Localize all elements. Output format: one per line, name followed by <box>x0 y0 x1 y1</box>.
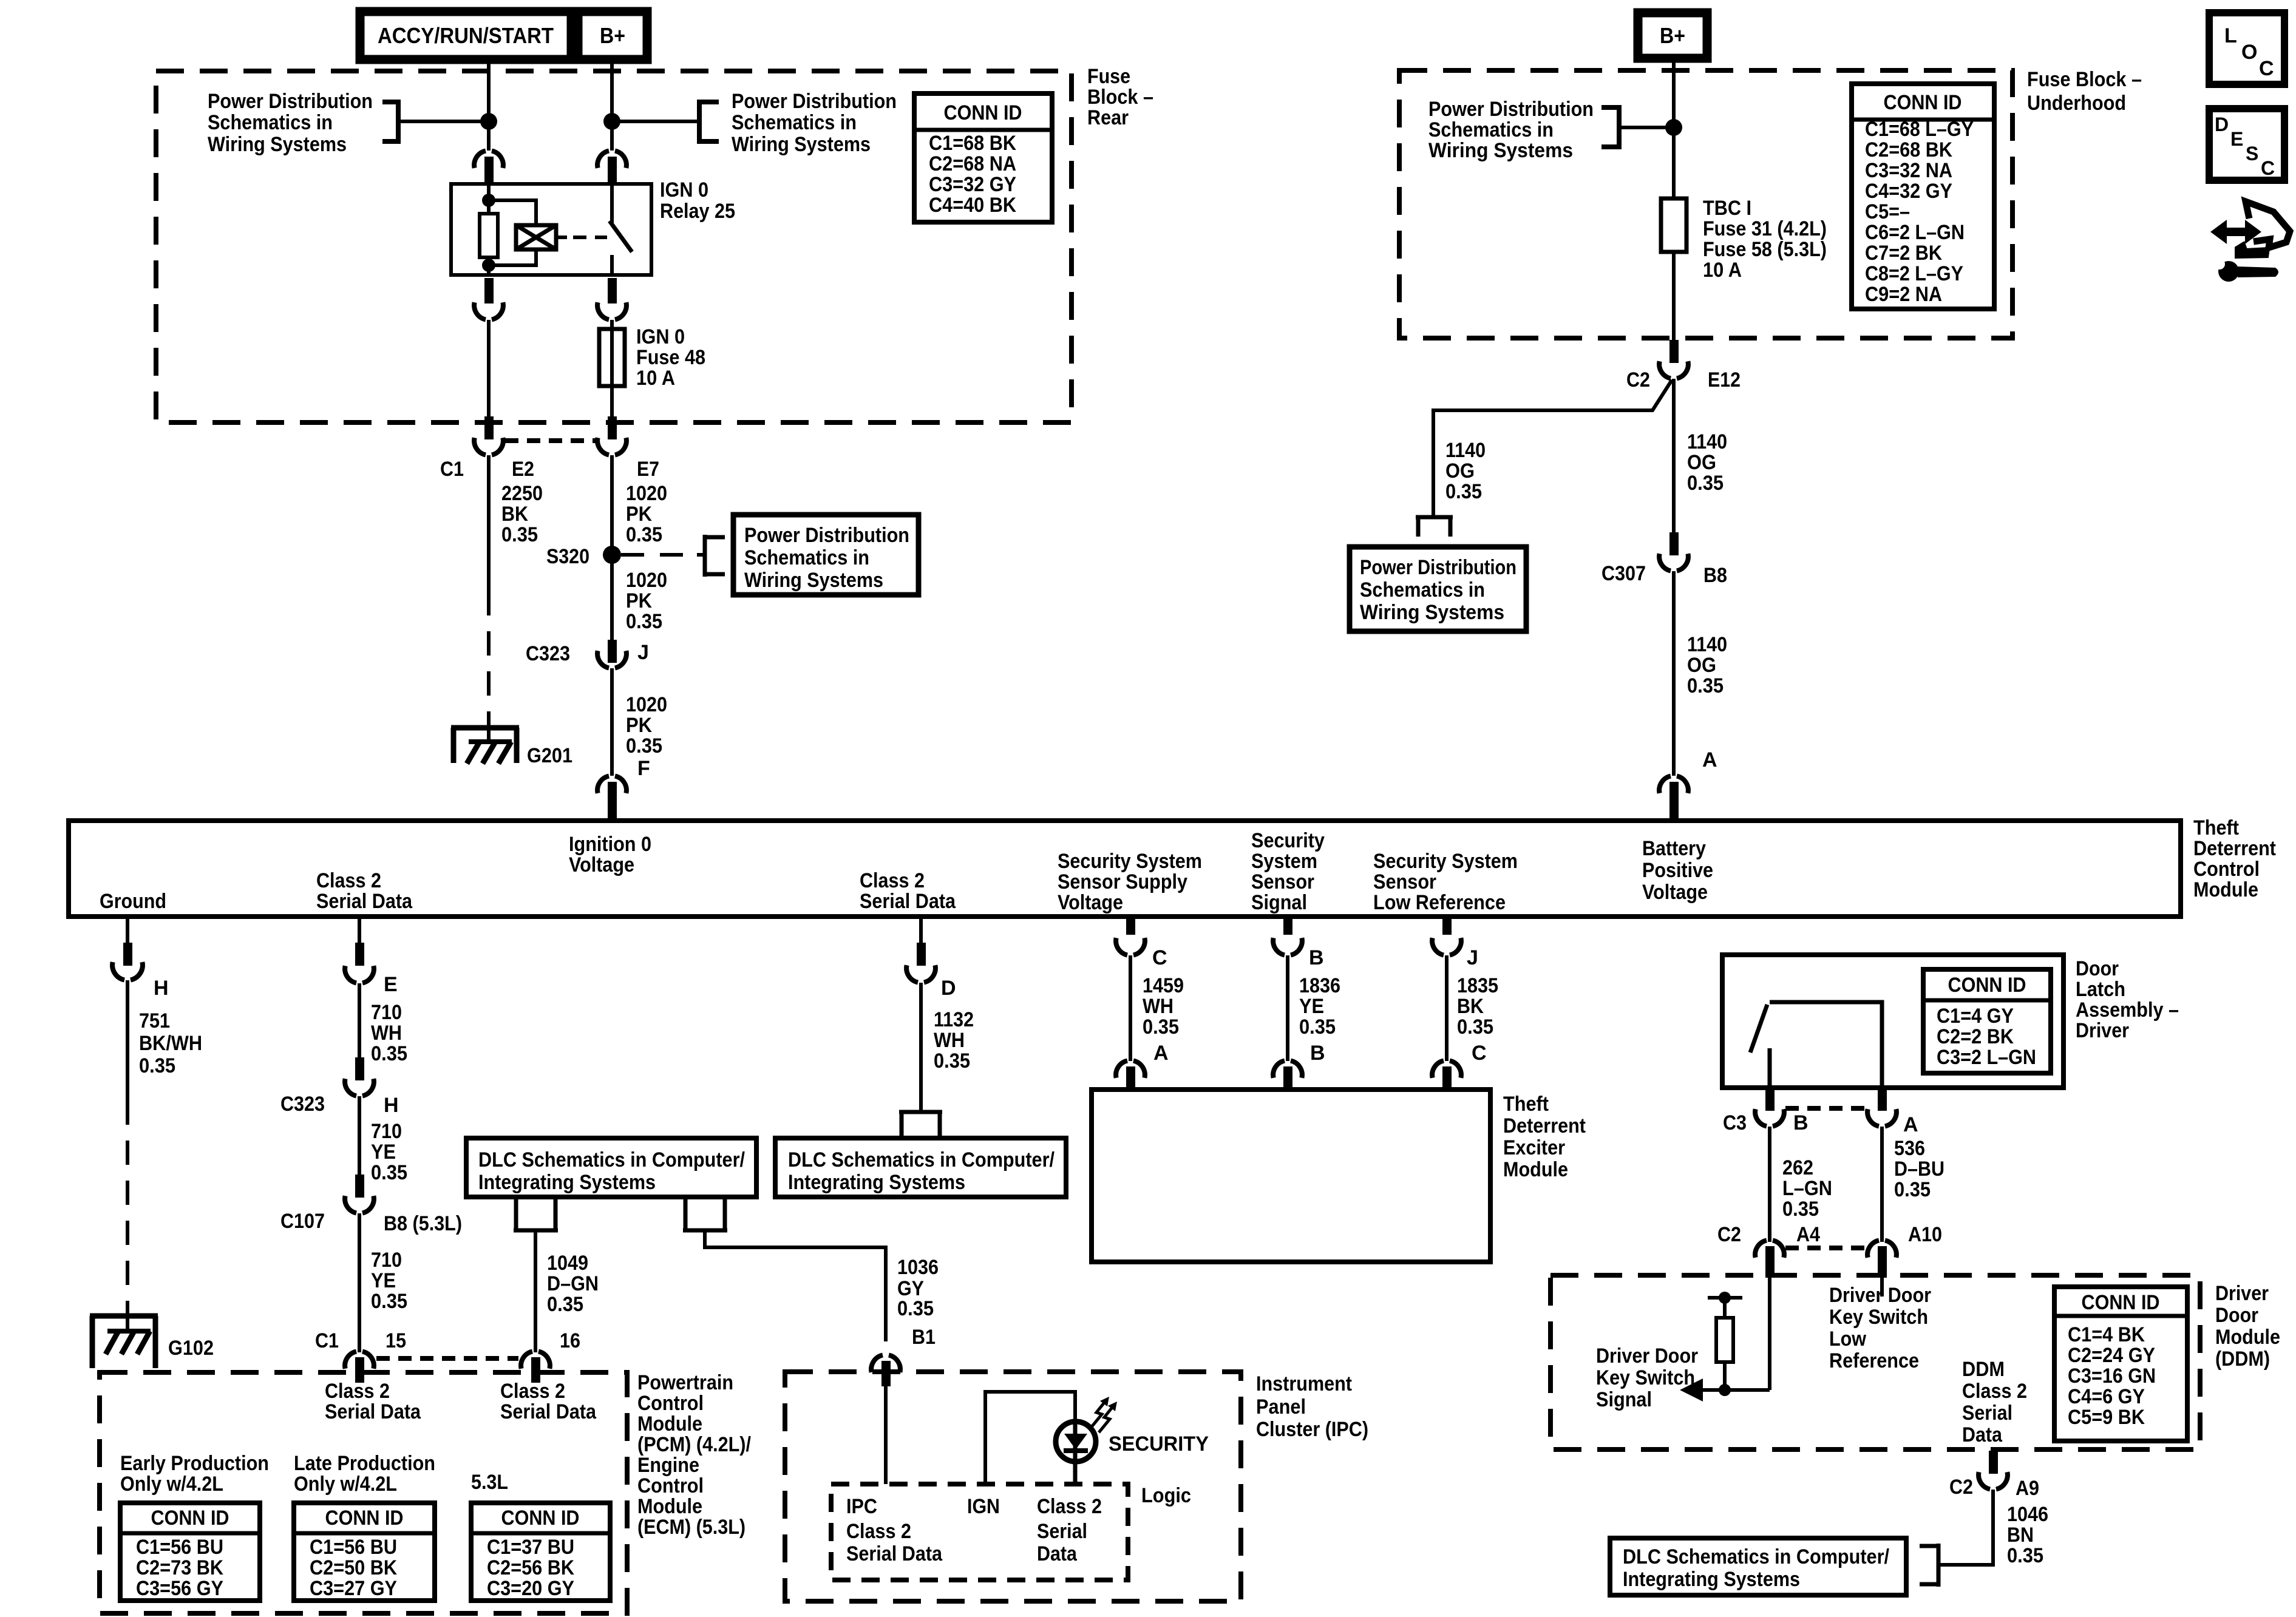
relay solenoid loop <box>489 200 536 265</box>
svg-text:Logic: Logic <box>1141 1484 1191 1507</box>
svg-text:Security System: Security System <box>1058 850 1202 873</box>
svg-text:OG: OG <box>1687 654 1716 677</box>
svg-text:1036: 1036 <box>897 1256 939 1279</box>
connector C1 15 dome into PCM <box>345 1352 374 1369</box>
svg-text:J: J <box>637 641 649 664</box>
svg-text:0.35: 0.35 <box>934 1049 970 1073</box>
svg-text:C2=68 BK: C2=68 BK <box>1865 138 1952 161</box>
latch switch <box>1770 1002 1882 1088</box>
svg-text:Panel: Panel <box>1256 1395 1306 1419</box>
bracket to B+ wire <box>699 100 719 144</box>
connector C2 E12 (pin and cup) <box>1669 340 1679 363</box>
wire B down <box>1768 1127 1771 1242</box>
svg-text:CONN ID: CONN ID <box>944 101 1022 124</box>
svg-text:Integrating Systems: Integrating Systems <box>1623 1568 1800 1591</box>
svg-text:C5=–: C5=– <box>1865 200 1910 223</box>
svg-text:A: A <box>1702 748 1717 771</box>
ground G102 <box>90 1316 158 1368</box>
fuse IGN 0 Fuse 48 10 A <box>599 329 625 386</box>
svg-text:C323: C323 <box>526 642 570 665</box>
svg-text:B+: B+ <box>1660 23 1685 48</box>
svg-text:B: B <box>1310 1042 1325 1065</box>
svg-text:Early Production: Early Production <box>120 1452 269 1475</box>
svg-text:710: 710 <box>371 1249 402 1272</box>
svg-text:Theft: Theft <box>1503 1093 1549 1116</box>
svg-text:1836: 1836 <box>1299 974 1340 997</box>
dashed connector line C1-E7 <box>505 438 596 443</box>
splice S320 <box>603 546 621 564</box>
svg-text:PK: PK <box>626 589 652 612</box>
svg-text:C2: C2 <box>1717 1223 1741 1246</box>
svg-text:Voltage: Voltage <box>569 853 634 876</box>
svg-text:Block –: Block – <box>1087 86 1153 109</box>
connector C323 J (pin and cup) <box>608 640 617 663</box>
svg-text:C3=32 GY: C3=32 GY <box>929 173 1016 196</box>
svg-text:Module: Module <box>637 1495 702 1518</box>
svg-text:G102: G102 <box>168 1337 214 1360</box>
CONN ID table (DDM) <box>2054 1287 2187 1441</box>
svg-text:IGN 0: IGN 0 <box>660 178 708 202</box>
svg-text:C: C <box>2261 157 2275 179</box>
relay switch <box>610 184 614 223</box>
svg-text:S: S <box>2246 143 2258 164</box>
svg-text:H: H <box>384 1094 399 1117</box>
svg-text:Signal: Signal <box>1596 1388 1652 1411</box>
bracket to DLC box (bottom) <box>1920 1544 1938 1587</box>
svg-text:Power Distribution: Power Distribution <box>744 524 909 547</box>
svg-text:E12: E12 <box>1708 368 1741 392</box>
svg-text:CONN ID: CONN ID <box>1948 974 2026 997</box>
relay coil resistor <box>480 214 498 257</box>
svg-text:C1=4 GY: C1=4 GY <box>1937 1005 2014 1028</box>
svg-text:Schematics in: Schematics in <box>732 111 857 134</box>
relay coil wire and junctions <box>487 184 491 214</box>
dashed connector line A4-A10 <box>1785 1246 1866 1250</box>
connector 16 dome into PCM <box>521 1352 550 1369</box>
svg-text:D–GN: D–GN <box>547 1272 599 1295</box>
svg-text:WH: WH <box>371 1022 402 1045</box>
svg-text:Key Switch: Key Switch <box>1596 1366 1695 1389</box>
svg-text:536: 536 <box>1894 1137 1925 1160</box>
svg-text:Instrument: Instrument <box>1256 1372 1352 1395</box>
svg-text:1020: 1020 <box>626 569 667 592</box>
svg-text:C: C <box>1152 946 1167 969</box>
svg-text:Class 2: Class 2 <box>316 869 381 892</box>
power feed box ACCY/RUN/START <box>360 12 571 59</box>
navigation icon (arrow hand wrench) <box>2210 202 2290 282</box>
connector A dome into exciter <box>1116 1061 1145 1078</box>
svg-text:Battery: Battery <box>1642 837 1706 860</box>
fuse TBC I <box>1661 198 1686 252</box>
dashed connector line 15-16 <box>376 1356 518 1361</box>
svg-text:YE: YE <box>371 1141 396 1164</box>
svg-text:0.35: 0.35 <box>1687 674 1724 697</box>
wire A4 down and arrow <box>1768 1278 1771 1390</box>
svg-text:C1: C1 <box>315 1329 339 1352</box>
svg-text:Only w/4.2L: Only w/4.2L <box>120 1473 223 1496</box>
svg-text:Serial Data: Serial Data <box>316 890 413 913</box>
theft deterrent exciter module box <box>1092 1090 1490 1262</box>
svg-text:C1=56 BU: C1=56 BU <box>310 1536 397 1559</box>
connector C107 B8 (pin and cup) <box>355 1175 364 1198</box>
svg-text:C2=24 GY: C2=24 GY <box>2068 1344 2155 1367</box>
svg-text:IGN 0: IGN 0 <box>636 325 685 348</box>
svg-text:0.35: 0.35 <box>1299 1015 1336 1039</box>
svg-text:Deterrent: Deterrent <box>1503 1114 1586 1137</box>
svg-text:C2: C2 <box>1949 1476 1973 1499</box>
DDM dashed outline <box>1550 1275 2200 1449</box>
SECURITY indicator LED <box>1056 1397 1117 1484</box>
security sensor B chain <box>1283 915 1292 935</box>
connector C3 B (pin and cup) <box>1765 1088 1775 1111</box>
connector E (pin and cup) <box>358 917 361 944</box>
svg-text:Door: Door <box>2215 1304 2258 1327</box>
svg-text:Security System: Security System <box>1373 850 1518 873</box>
svg-text:262: 262 <box>1782 1156 1813 1179</box>
svg-text:Power Distribution: Power Distribution <box>208 90 373 113</box>
svg-text:1020: 1020 <box>626 482 667 505</box>
door latch assembly box <box>1722 955 2063 1088</box>
svg-text:C1: C1 <box>440 458 464 481</box>
svg-text:C1=37 BU: C1=37 BU <box>487 1536 574 1559</box>
svg-text:1140: 1140 <box>1687 633 1727 656</box>
connector C2 A4 dome into DDM <box>1755 1241 1784 1258</box>
svg-text:Schematics in: Schematics in <box>744 546 869 569</box>
svg-text:C3=2 L–GN: C3=2 L–GN <box>1937 1046 2036 1069</box>
wire E2 dashed to ground <box>487 591 491 726</box>
svg-text:(PCM) (4.2L)/: (PCM) (4.2L)/ <box>637 1433 751 1456</box>
CONN ID table (PCM late) <box>294 1503 435 1601</box>
svg-text:C1=68 BK: C1=68 BK <box>929 132 1016 155</box>
wire E2 down solid <box>487 455 491 591</box>
svg-text:C3=20 GY: C3=20 GY <box>487 1577 574 1600</box>
svg-text:YE: YE <box>371 1269 396 1292</box>
svg-text:C2=56 BK: C2=56 BK <box>487 1556 574 1579</box>
svg-text:0.35: 0.35 <box>1894 1178 1931 1201</box>
svg-text:Low Reference: Low Reference <box>1373 891 1506 914</box>
power feed box B+ (right) <box>1638 13 1707 58</box>
PCM dashed outline <box>100 1372 627 1613</box>
svg-text:1049: 1049 <box>547 1252 588 1275</box>
svg-text:Door: Door <box>2076 957 2119 980</box>
svg-text:DLC Schematics in Computer/: DLC Schematics in Computer/ <box>478 1148 745 1171</box>
CONN ID table (underhood) <box>1852 84 1994 309</box>
svg-text:B8 (5.3L): B8 (5.3L) <box>384 1212 462 1235</box>
svg-text:0.35: 0.35 <box>626 610 662 633</box>
reference box Power Distribution (S320) <box>733 515 919 595</box>
wire H down solid <box>126 980 129 1100</box>
security sensor J chain <box>1442 915 1452 935</box>
svg-text:Schematics in: Schematics in <box>1360 578 1485 602</box>
svg-text:0.35: 0.35 <box>371 1290 407 1313</box>
relay mechanical linkage <box>556 236 567 239</box>
svg-text:Driver Door: Driver Door <box>1829 1284 1931 1307</box>
svg-text:Control: Control <box>2193 858 2260 881</box>
svg-text:S320: S320 <box>546 545 589 568</box>
svg-text:1140: 1140 <box>1687 430 1727 453</box>
connector cup below relay right <box>608 278 617 303</box>
svg-text:Driver: Driver <box>2215 1282 2269 1305</box>
svg-text:0.35: 0.35 <box>139 1054 175 1077</box>
svg-text:BK: BK <box>501 503 528 526</box>
svg-text:B: B <box>1309 946 1324 969</box>
svg-text:Fuse 58 (5.3L): Fuse 58 (5.3L) <box>1703 238 1827 261</box>
wire A down <box>1880 1127 1884 1242</box>
svg-text:Data: Data <box>1962 1423 2003 1446</box>
svg-text:0.35: 0.35 <box>501 523 538 546</box>
security sensor C chain <box>1126 915 1135 935</box>
svg-text:SECURITY: SECURITY <box>1109 1432 1209 1456</box>
wire A9 down to DLC <box>1938 1490 1993 1565</box>
svg-text:A9: A9 <box>2016 1477 2039 1500</box>
CONN ID table (ECM 5.3L) <box>471 1503 610 1601</box>
wire C down <box>1129 955 1132 1061</box>
svg-text:TBC I: TBC I <box>1703 197 1751 220</box>
wire bracket to node <box>1619 126 1674 129</box>
svg-text:Data: Data <box>1037 1542 1078 1565</box>
svg-text:L: L <box>2224 24 2237 47</box>
connector A10 dome into DDM <box>1867 1241 1897 1258</box>
bracket above DLC box (right) <box>899 1112 942 1138</box>
wire node to bracket <box>612 120 699 123</box>
svg-text:Voltage: Voltage <box>1058 891 1123 914</box>
svg-text:0.35: 0.35 <box>1143 1015 1179 1039</box>
connector C323 H (pin and cup) <box>355 1057 364 1080</box>
svg-text:Fuse 31 (4.2L): Fuse 31 (4.2L) <box>1703 217 1827 240</box>
svg-text:Cluster (IPC): Cluster (IPC) <box>1256 1418 1368 1441</box>
svg-text:Integrating Systems: Integrating Systems <box>788 1171 965 1194</box>
svg-text:Underhood: Underhood <box>2027 92 2126 115</box>
svg-text:Wiring Systems: Wiring Systems <box>744 569 883 592</box>
svg-text:E: E <box>2230 128 2243 150</box>
svg-text:E7: E7 <box>637 458 659 481</box>
svg-text:1835: 1835 <box>1457 974 1498 997</box>
svg-text:Class 2: Class 2 <box>846 1520 911 1543</box>
svg-text:Assembly –: Assembly – <box>2076 998 2179 1022</box>
svg-text:Power Distribution: Power Distribution <box>1360 556 1517 579</box>
ground G201 <box>451 728 519 764</box>
svg-text:Serial Data: Serial Data <box>846 1542 943 1565</box>
svg-text:0.35: 0.35 <box>371 1042 407 1065</box>
svg-text:Wiring Systems: Wiring Systems <box>208 133 347 156</box>
node on B+ wire <box>603 113 620 130</box>
wire B8 down to PCM <box>358 1213 361 1352</box>
svg-text:C3=16 GN: C3=16 GN <box>2068 1364 2156 1388</box>
IPC dashed outline <box>785 1372 1241 1601</box>
wire C323 to F <box>610 668 614 776</box>
svg-text:Module: Module <box>2215 1326 2280 1349</box>
connector C2 A9 (pin and cup) <box>1989 1451 1998 1474</box>
CONN ID table (PCM early) <box>120 1503 260 1601</box>
svg-text:C4=6 GY: C4=6 GY <box>2068 1385 2145 1408</box>
svg-text:Engine: Engine <box>637 1454 699 1477</box>
svg-text:Ignition 0: Ignition 0 <box>569 833 651 856</box>
svg-text:Exciter: Exciter <box>1503 1136 1565 1159</box>
svg-text:CONN ID: CONN ID <box>151 1507 229 1530</box>
svg-text:CONN ID: CONN ID <box>2082 1291 2160 1314</box>
CONN ID table (fuse block rear) <box>914 93 1052 222</box>
svg-text:0.35: 0.35 <box>1782 1198 1819 1221</box>
svg-text:C4=40 BK: C4=40 BK <box>929 194 1016 217</box>
svg-text:WH: WH <box>1143 995 1173 1018</box>
svg-text:J: J <box>1467 946 1478 969</box>
bracket to power distribution box <box>705 535 725 577</box>
wire relay to fuse and E7 <box>610 320 614 419</box>
fuse block rear dashed outline <box>156 71 1072 422</box>
svg-text:Control: Control <box>637 1392 704 1415</box>
svg-text:Wiring Systems: Wiring Systems <box>1428 139 1573 162</box>
svg-text:B: B <box>1793 1111 1809 1134</box>
wire B+ down to fuse <box>1672 58 1676 198</box>
svg-text:0.35: 0.35 <box>2007 1544 2043 1567</box>
svg-text:Control: Control <box>637 1474 704 1497</box>
svg-text:C1=56 BU: C1=56 BU <box>136 1536 223 1559</box>
wire fuse down <box>1672 252 1676 350</box>
logic dashed box <box>831 1484 1128 1580</box>
svg-text:0.35: 0.35 <box>371 1161 407 1184</box>
bracket above power distribution box (branch) <box>1416 517 1453 537</box>
svg-text:Powertrain: Powertrain <box>637 1371 733 1394</box>
svg-text:System: System <box>1251 850 1317 873</box>
svg-text:Deterrent: Deterrent <box>2193 837 2276 860</box>
svg-text:Latch: Latch <box>2076 978 2125 1001</box>
svg-text:C6=2 L–GN: C6=2 L–GN <box>1865 221 1965 244</box>
relay IGN 0 Relay 25 box <box>451 184 651 275</box>
svg-text:Driver: Driver <box>2076 1019 2129 1042</box>
svg-text:BK/WH: BK/WH <box>139 1032 202 1055</box>
svg-text:1046: 1046 <box>2007 1503 2048 1526</box>
svg-text:Sensor Supply: Sensor Supply <box>1058 870 1187 893</box>
connector cup below relay left <box>484 278 494 303</box>
svg-text:Class 2: Class 2 <box>1037 1495 1102 1518</box>
connector dome above relay left <box>474 151 503 168</box>
svg-text:Relay 25: Relay 25 <box>660 200 735 223</box>
wire B8 down <box>1672 571 1676 776</box>
svg-text:C3=32 NA: C3=32 NA <box>1865 159 1952 182</box>
svg-text:L–GN: L–GN <box>1782 1177 1832 1200</box>
svg-text:Sensor: Sensor <box>1373 870 1436 893</box>
svg-text:A4: A4 <box>1796 1223 1820 1246</box>
wire E down <box>358 983 361 1065</box>
svg-text:C: C <box>2259 57 2274 80</box>
wire B1 to logic <box>884 1373 888 1484</box>
svg-text:H: H <box>154 977 169 1000</box>
svg-text:IGN: IGN <box>967 1495 1000 1518</box>
reference box Power Distribution (underhood branch) <box>1350 547 1526 631</box>
theft deterrent control module bar <box>69 821 2181 917</box>
svg-text:751: 751 <box>139 1009 170 1032</box>
connector B dome into exciter <box>1273 1061 1302 1078</box>
bracket to B+ wire (underhood) <box>1601 105 1619 149</box>
connector C307 B8 (pin and cup) <box>1669 532 1679 555</box>
svg-text:0.35: 0.35 <box>897 1297 934 1320</box>
svg-text:A: A <box>1903 1113 1918 1136</box>
DLC reference box (right) <box>775 1138 1066 1197</box>
svg-text:Fuse 48: Fuse 48 <box>636 346 705 369</box>
svg-text:C3=56 GY: C3=56 GY <box>136 1577 223 1600</box>
svg-text:Serial: Serial <box>1037 1520 1087 1543</box>
svg-text:Serial Data: Serial Data <box>325 1400 421 1423</box>
svg-text:16: 16 <box>560 1329 580 1352</box>
CONN ID table (door latch) <box>1923 969 2051 1073</box>
svg-text:10 A: 10 A <box>636 367 675 390</box>
svg-text:Fuse: Fuse <box>1087 65 1130 88</box>
svg-text:Serial Data: Serial Data <box>860 890 956 913</box>
LOC box <box>2209 13 2284 84</box>
svg-text:Class 2: Class 2 <box>860 869 925 892</box>
svg-text:0.35: 0.35 <box>1457 1015 1493 1039</box>
wire A10 stub <box>1880 1278 1884 1297</box>
svg-text:C9=2 NA: C9=2 NA <box>1865 283 1942 306</box>
svg-text:Positive: Positive <box>1642 859 1713 882</box>
svg-text:Low: Low <box>1829 1327 1866 1351</box>
svg-text:Serial Data: Serial Data <box>500 1400 597 1423</box>
svg-text:0.35: 0.35 <box>547 1293 583 1316</box>
svg-text:E2: E2 <box>512 458 534 481</box>
connector B1 dome into IPC <box>871 1355 900 1372</box>
bracket below DLC box (to 16) <box>514 1197 558 1230</box>
svg-text:C307: C307 <box>1601 562 1646 585</box>
svg-text:C2=73 BK: C2=73 BK <box>136 1556 223 1579</box>
bracket to ACCY wire <box>382 100 398 144</box>
wire E7 down <box>610 455 614 640</box>
connector E7 (pin and cup) <box>608 416 617 439</box>
svg-text:BK: BK <box>1457 995 1484 1018</box>
wire B+ feed down <box>610 59 614 151</box>
svg-text:Power Distribution: Power Distribution <box>1428 98 1594 121</box>
svg-text:Key Switch: Key Switch <box>1829 1306 1928 1329</box>
power feed box B+ (left) <box>578 12 647 59</box>
wire J down <box>1445 955 1449 1061</box>
connector C dome into exciter <box>1432 1061 1461 1078</box>
svg-text:DLC Schematics in Computer/: DLC Schematics in Computer/ <box>788 1148 1055 1171</box>
svg-text:Class 2: Class 2 <box>500 1380 565 1403</box>
svg-text:10 A: 10 A <box>1703 259 1742 282</box>
connector D (pin and cup) <box>919 917 923 944</box>
svg-text:Only w/4.2L: Only w/4.2L <box>294 1473 397 1496</box>
svg-text:710: 710 <box>371 1001 402 1024</box>
svg-text:O: O <box>2241 41 2257 64</box>
svg-text:Class 2: Class 2 <box>325 1380 390 1403</box>
svg-text:Voltage: Voltage <box>1642 881 1708 904</box>
svg-text:C2=68 NA: C2=68 NA <box>929 152 1016 175</box>
svg-text:Wiring Systems: Wiring Systems <box>1360 601 1504 624</box>
svg-text:C7=2 BK: C7=2 BK <box>1865 242 1942 265</box>
svg-text:Reference: Reference <box>1829 1349 1919 1372</box>
svg-text:DDM: DDM <box>1962 1358 2005 1381</box>
svg-text:0.35: 0.35 <box>1687 472 1724 495</box>
svg-text:IPC: IPC <box>846 1495 877 1518</box>
svg-text:ACCY/RUN/START: ACCY/RUN/START <box>378 23 554 48</box>
svg-text:Signal: Signal <box>1251 891 1307 914</box>
svg-text:D: D <box>2215 114 2229 135</box>
svg-text:C8=2 L–GY: C8=2 L–GY <box>1865 262 1963 285</box>
svg-text:Driver Door: Driver Door <box>1596 1344 1698 1368</box>
svg-text:2250: 2250 <box>501 482 543 505</box>
svg-text:C1=4 BK: C1=4 BK <box>2068 1323 2145 1346</box>
svg-text:C1=68 L–GY: C1=68 L–GY <box>1865 118 1974 141</box>
node on B+ wire (underhood) <box>1665 119 1682 136</box>
svg-text:Schematics in: Schematics in <box>1428 118 1554 141</box>
wire DLC to B1 <box>705 1230 886 1341</box>
wire H dashed to ground <box>126 1100 129 1316</box>
wire D down <box>919 983 923 1112</box>
svg-text:15: 15 <box>385 1329 406 1352</box>
bracket below DLC box (to IPC wire) <box>683 1197 727 1230</box>
DLC reference box (bottom) <box>1610 1538 1906 1595</box>
wire branch from C2 to left <box>1433 380 1672 517</box>
svg-text:Power Distribution: Power Distribution <box>732 90 897 113</box>
